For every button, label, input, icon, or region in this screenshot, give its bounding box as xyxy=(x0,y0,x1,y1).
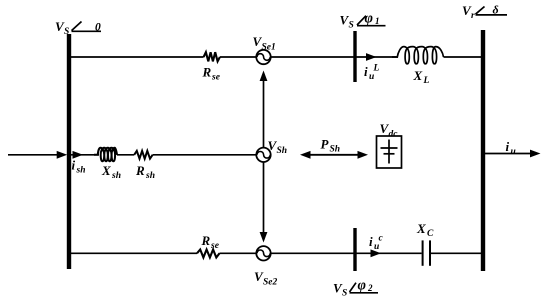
svg-text:Sh: Sh xyxy=(330,145,341,155)
inductor Xsh xyxy=(94,148,117,162)
svg-text:C: C xyxy=(427,229,434,239)
svg-text:u: u xyxy=(369,72,374,82)
svg-text:R: R xyxy=(201,233,211,248)
svg-text:1: 1 xyxy=(375,16,380,26)
dc-link box Vdc xyxy=(377,136,402,168)
svg-text:S: S xyxy=(349,21,354,31)
wire shunt link down (VSh to VSe2) with down arrow xyxy=(263,162,265,234)
resistor Rse (top) xyxy=(204,52,220,61)
svg-text:L: L xyxy=(373,64,380,74)
svg-text:φ: φ xyxy=(365,10,373,26)
svg-text:u: u xyxy=(374,242,379,252)
arrow iuL on top wire xyxy=(366,53,377,61)
svg-text:X: X xyxy=(413,68,423,83)
wire top: Rse to VSe1 xyxy=(220,56,257,58)
svg-text:i: i xyxy=(369,234,373,249)
svg-text:P: P xyxy=(321,137,330,152)
svg-text:i: i xyxy=(72,158,76,173)
inductor XL xyxy=(392,47,444,64)
wire bottom: VSe2 through bus phi2 to XC xyxy=(271,252,422,254)
double-headed arrow PSh (power exchange) xyxy=(308,154,360,156)
source VSe1 (series converter 1) xyxy=(256,50,270,64)
svg-text:sh: sh xyxy=(111,171,121,181)
wire mid: bus to Xsh xyxy=(69,154,99,156)
wire bottom: Rse to VSe2 xyxy=(220,252,258,254)
svg-text:X: X xyxy=(101,163,111,178)
svg-text:dc: dc xyxy=(389,130,399,140)
svg-text:i: i xyxy=(364,64,368,79)
svg-text:0: 0 xyxy=(95,22,101,34)
wire bottom: XC to bus Vr xyxy=(430,252,483,254)
svg-text:2: 2 xyxy=(367,283,373,293)
svg-text:Se1: Se1 xyxy=(262,43,276,53)
svg-text:se: se xyxy=(211,73,221,83)
wire mid: Rsh to VSh xyxy=(153,154,257,156)
bus Vs phi2 (series2 output) xyxy=(353,228,356,271)
bus Vs (sending-end) left xyxy=(67,34,71,269)
svg-text:se: se xyxy=(210,241,220,251)
svg-text:sh: sh xyxy=(76,166,86,176)
svg-text:u: u xyxy=(511,147,516,157)
arrow iuC on bottom wire xyxy=(371,249,382,257)
svg-text:δ: δ xyxy=(493,3,499,17)
svg-text:X: X xyxy=(416,221,426,236)
svg-text:L: L xyxy=(423,76,430,86)
bus Vs phi1 (series1 output) xyxy=(353,31,356,82)
input line with arrow into bus Vs xyxy=(8,154,58,156)
wire bottom: bus Vs to Rse2 xyxy=(69,252,197,254)
svg-text:S: S xyxy=(64,27,69,37)
source VSe2 (series converter 2) xyxy=(256,246,270,260)
svg-text:r: r xyxy=(471,11,475,21)
resistor Rsh xyxy=(134,151,152,159)
wire top: XL to bus Vr xyxy=(444,56,484,58)
wire shunt link up (VSh to VSe1) with up arrow xyxy=(263,79,265,148)
svg-text:Sh: Sh xyxy=(277,146,288,156)
arrow ish after bus xyxy=(73,151,84,159)
capacitor XC plates xyxy=(422,240,424,265)
svg-text:i: i xyxy=(506,139,510,154)
svg-text:R: R xyxy=(135,163,145,178)
resistor Rse (bottom) xyxy=(197,250,220,258)
svg-text:S: S xyxy=(342,289,347,299)
source VSh (shunt converter) xyxy=(256,148,270,162)
svg-text:sh: sh xyxy=(145,171,155,181)
svg-text:R: R xyxy=(202,65,212,80)
svg-text:Se2: Se2 xyxy=(263,278,278,288)
wire top: VSe1 through bus phi1 to XL xyxy=(271,56,399,58)
output arrow iu from bus Vr xyxy=(483,153,534,155)
capacitor symbol inside Vdc box xyxy=(388,140,390,164)
svg-text:φ: φ xyxy=(358,278,366,294)
wire top: bus Vs to Rse xyxy=(69,56,204,58)
bus Vr (receiving-end) right xyxy=(481,30,485,271)
wire mid: Xsh to Rsh xyxy=(117,154,134,156)
